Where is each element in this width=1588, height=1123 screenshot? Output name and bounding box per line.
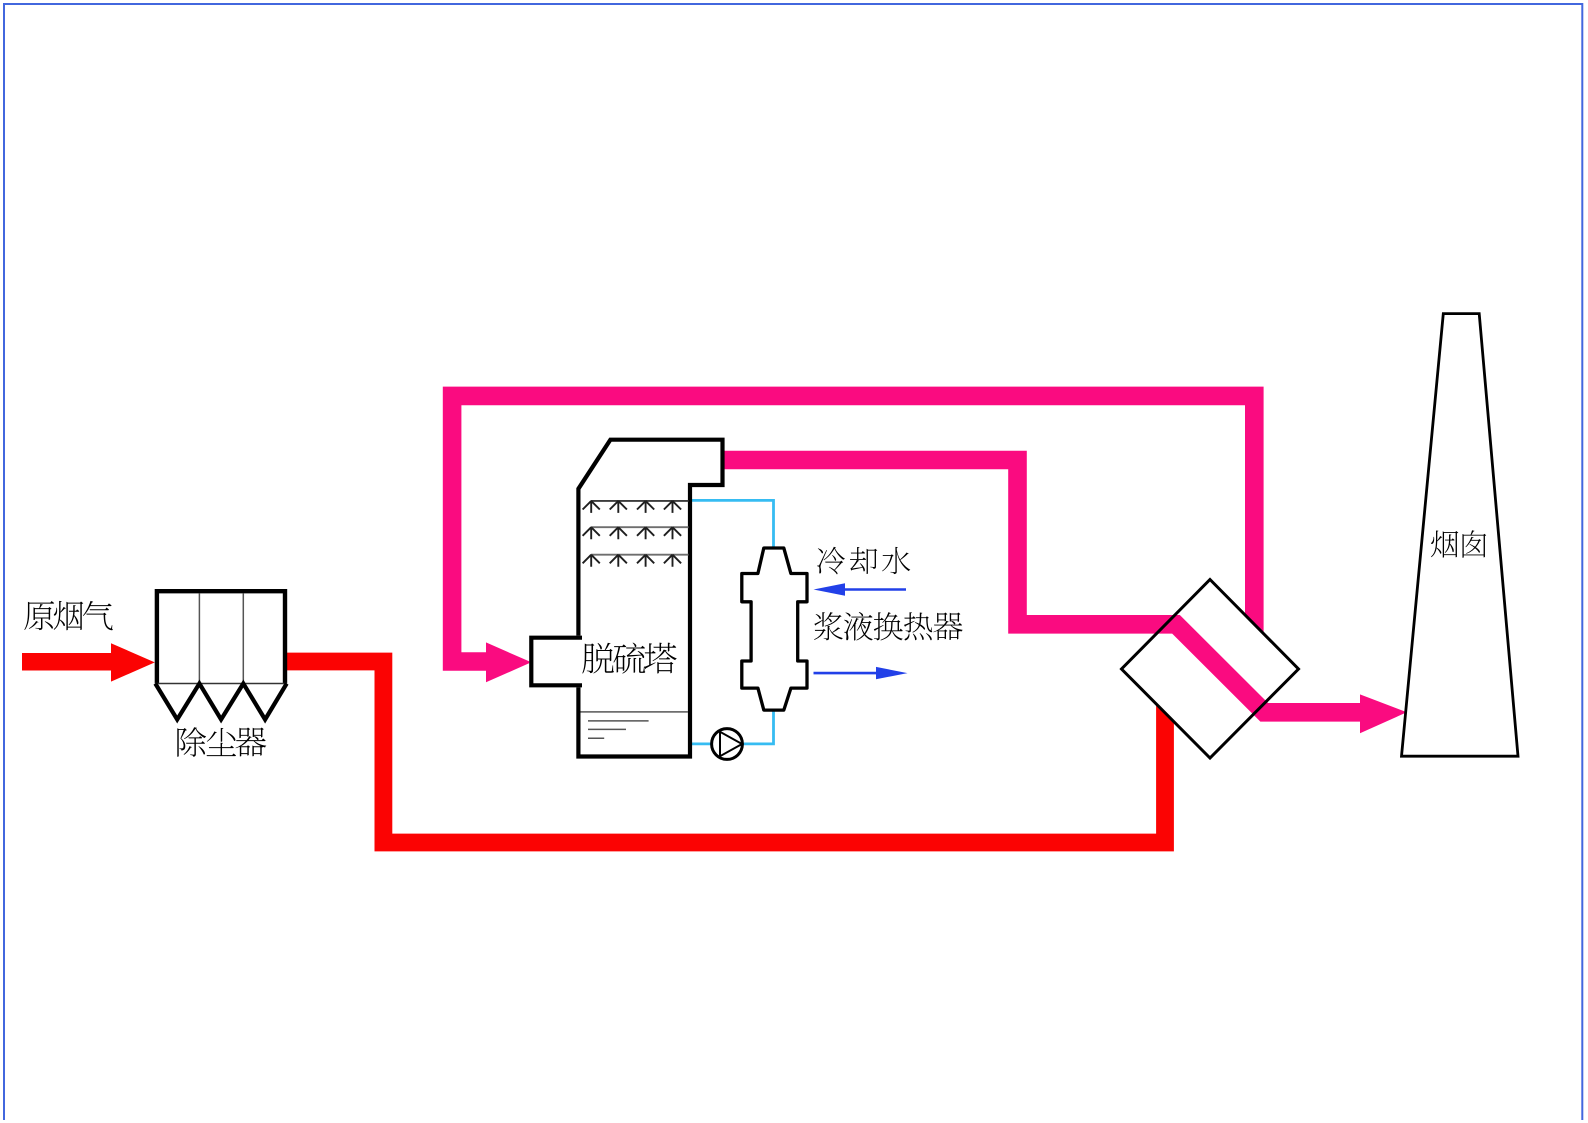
slurry liquid level line: [581, 711, 689, 713]
spray bank 1 header: [591, 500, 689, 502]
label: slurry heat exchanger 浆液换热器: [814, 612, 963, 641]
absorber inlet duct: [529, 636, 582, 688]
stack / chimney: [1402, 314, 1519, 757]
ESP hoppers: [155, 684, 286, 720]
ESP internal partitions: [199, 594, 243, 684]
ESP dust collector box: [157, 591, 285, 683]
absorber tower body: [578, 440, 722, 757]
spray bank 2 nozzles: [583, 527, 681, 539]
ESP bottom line: [155, 683, 287, 685]
cooling water inlet arrow (blue, leftwards): [814, 583, 907, 595]
cooling water outlet arrow (blue, rightwards): [814, 667, 908, 679]
label: absorber 脱硫塔: [582, 643, 676, 674]
slurry heat exchanger body: [742, 548, 807, 710]
pipe: slurry circulation loop (cyan): [688, 500, 774, 744]
arrowhead into absorber: [486, 642, 531, 682]
spray bank 1 nozzles: [583, 501, 681, 513]
pipe: raw flue gas inlet arrow (red): [22, 643, 155, 681]
pipe: clean gas from absorber top through GGH to stack (magenta): [722, 460, 1361, 712]
label: dust collector 除尘器: [177, 727, 266, 757]
pipe: cooled raw gas from GGH to absorber inlet (magenta): [452, 396, 1254, 662]
label: raw flue gas 原烟气: [24, 601, 112, 630]
slurry circulation pump: [712, 729, 743, 760]
spray bank 3 header: [591, 554, 689, 556]
pipe: hot raw gas loop from ESP to GGH (red): [286, 662, 1165, 843]
arrowhead into stack: [1360, 694, 1407, 733]
GGH rotary heat exchanger body fill: [1122, 580, 1299, 759]
liquid hatch lines: [588, 721, 649, 738]
label: stack 烟囱: [1431, 530, 1486, 558]
label: cooling water 冷却水: [817, 547, 910, 574]
spray bank 3 nozzles: [583, 555, 681, 567]
spray bank 2 header: [591, 526, 689, 528]
GGH rotary heat exchanger outline: [1122, 580, 1299, 759]
